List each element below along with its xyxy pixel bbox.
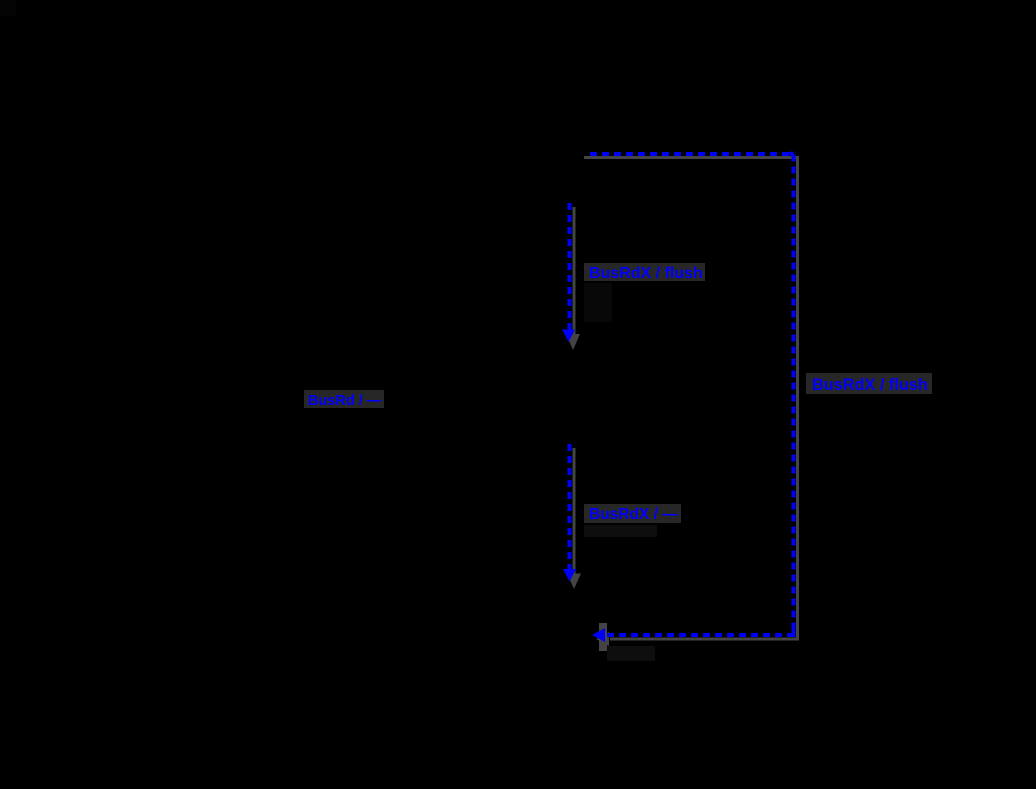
svg-text:BusRd / —: BusRd / — xyxy=(308,393,382,409)
svg-text:BusRdX / flush: BusRdX / flush xyxy=(812,376,928,394)
big dashed transition M->I around right xyxy=(590,154,794,635)
shadow of arrow M->S xyxy=(573,207,576,334)
dashed arrow S->I xyxy=(568,444,572,570)
label box BusRdX / dash (middle) xyxy=(584,504,681,523)
corner patch xyxy=(0,0,16,16)
label box BusRdX / flush (right) xyxy=(806,373,932,394)
svg-text:BusRdX / flush: BusRdX / flush xyxy=(589,265,703,282)
ghost label row near bottom arrowhead xyxy=(607,646,655,661)
dashed arrow M->S xyxy=(568,203,572,330)
label box BusRdX / flush (top) xyxy=(584,263,705,281)
shadow of arrowhead of big path xyxy=(596,632,609,646)
ghost smudge under flush label xyxy=(584,283,612,322)
corner dash patch top-right xyxy=(789,152,793,156)
shadow bar (state circle edge) near bottom arrowhead xyxy=(599,623,607,651)
svg-text:BusRdX / —: BusRdX / — xyxy=(589,506,678,523)
arrowhead of big path xyxy=(592,628,605,642)
shadow of big path M->I (right loop) xyxy=(584,158,798,640)
ghost label row under BusRdX dash label xyxy=(584,525,657,537)
corner dash patch bottom-right xyxy=(792,628,796,635)
label box BusRd / dash (left) xyxy=(304,390,384,408)
shadow of arrow S->I xyxy=(573,448,576,574)
